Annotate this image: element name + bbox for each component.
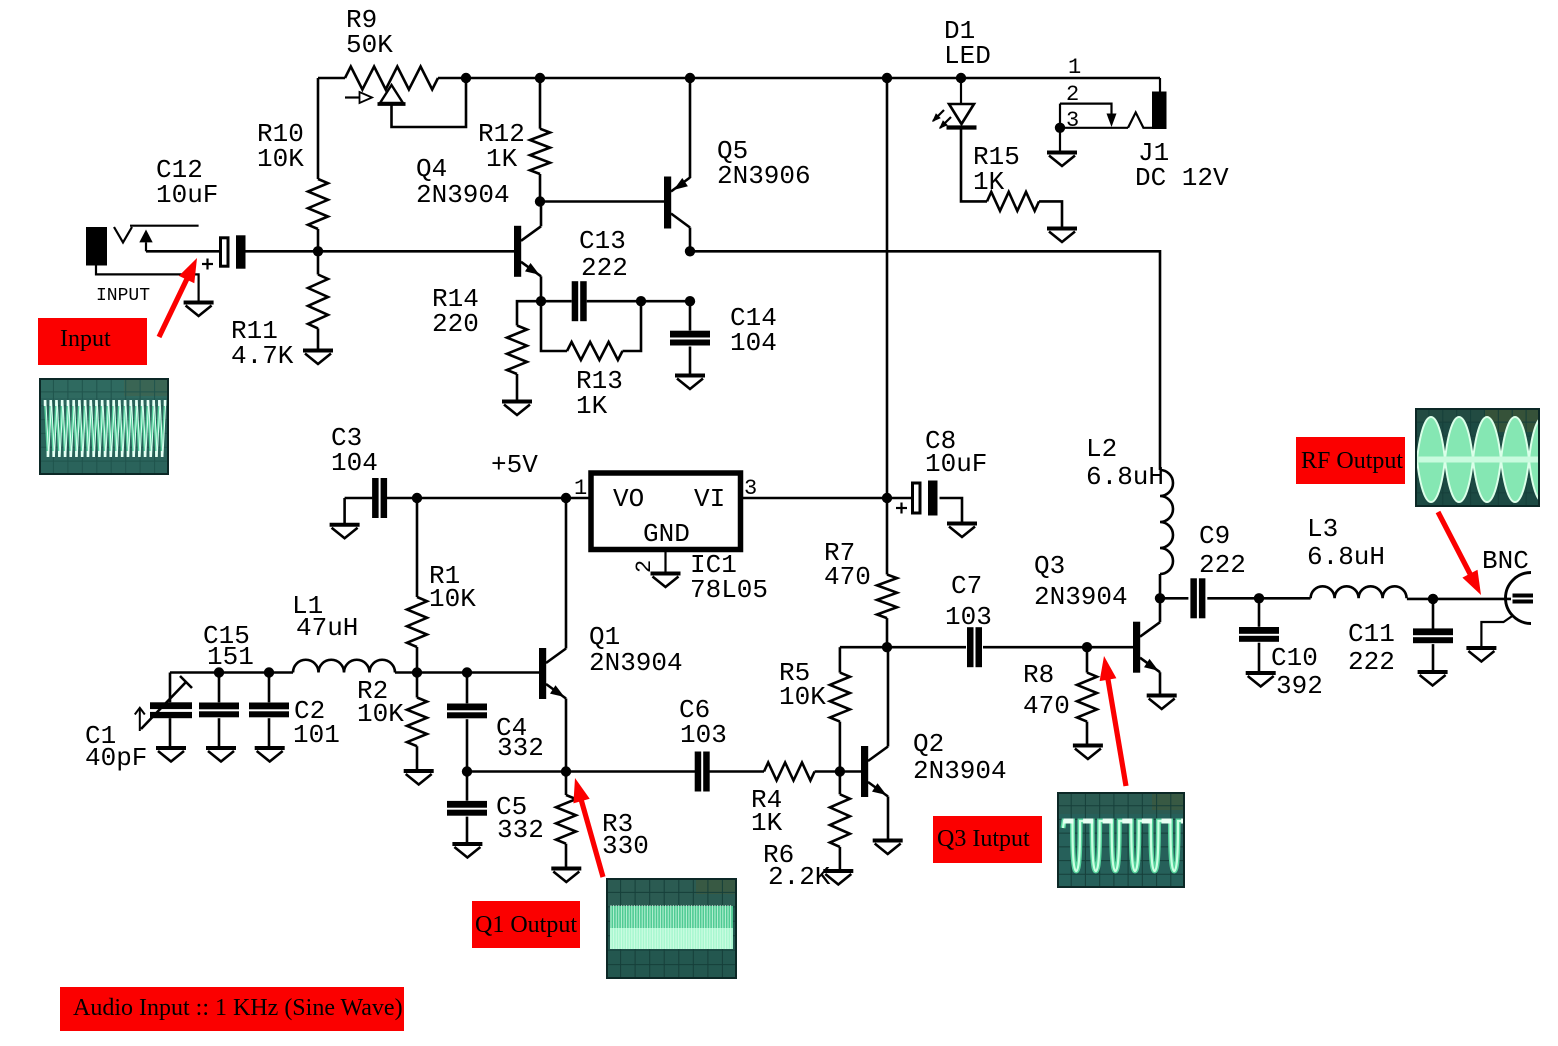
capacitor C8 [913, 483, 921, 513]
svg-text:C11: C11 [1348, 619, 1395, 649]
ground R2 [404, 769, 434, 773]
connector INPUT jack [86, 227, 107, 266]
svg-text:2: 2 [632, 560, 657, 573]
transistor Q3 2N3904 [1133, 622, 1140, 673]
svg-text:332: 332 [497, 815, 544, 845]
resistor R7 [877, 575, 897, 619]
svg-text:Q3: Q3 [1034, 551, 1065, 581]
svg-text:10uF: 10uF [156, 180, 218, 210]
resistor R1 [416, 498, 419, 597]
ground Q3 emitter [1147, 694, 1177, 698]
ground R8 [1073, 744, 1103, 748]
svg-text:GND: GND [643, 519, 690, 549]
capacitor C1 variable [169, 673, 172, 703]
svg-text:10K: 10K [257, 144, 304, 174]
svg-text:1K: 1K [751, 808, 783, 838]
node Q4 emitter [536, 296, 546, 306]
svg-text:3: 3 [1066, 108, 1079, 133]
wire Q3 collector to C9 [1160, 597, 1188, 600]
ground Q2 emitter [873, 839, 903, 843]
transistor Q4 2N3904 [514, 226, 521, 277]
capacitor C2 [268, 673, 271, 703]
ground C14 [675, 374, 705, 378]
node Q1 collector top [561, 493, 571, 503]
wire Q3 collector [1159, 598, 1162, 622]
wire J1 pin 3 with switch [1059, 104, 1061, 128]
svg-text:50K: 50K [346, 30, 393, 60]
node rail-R9wiper [461, 73, 471, 83]
wire C12 to Q4 base [245, 250, 514, 253]
wire C1 to node [170, 671, 293, 674]
svg-text:1K: 1K [973, 167, 1005, 197]
svg-text:104: 104 [331, 448, 378, 478]
capacitor C3 [345, 497, 373, 500]
wire rail to R10 [317, 78, 320, 179]
svg-text:DC 12V: DC 12V [1135, 163, 1229, 193]
wire Q5 collector [689, 228, 692, 252]
resistor R10 [308, 179, 328, 229]
wire R4 to Q2 base [815, 770, 861, 773]
wire Q1 output node row [467, 770, 695, 773]
svg-text:VI: VI [694, 484, 725, 514]
svg-text:C7: C7 [951, 571, 982, 601]
svg-text:2N3906: 2N3906 [717, 161, 811, 191]
ground C11 [1418, 670, 1448, 674]
wire jack sleeve to ground [96, 266, 199, 302]
svg-text:10K: 10K [429, 584, 476, 614]
ground C3 [343, 498, 346, 523]
svg-text:103: 103 [945, 602, 992, 632]
node R8-Q3base [1082, 642, 1092, 652]
scope image Q3 output [1057, 792, 1185, 888]
capacitor C15 [218, 673, 221, 703]
svg-text:+5V: +5V [491, 450, 538, 480]
svg-text:2N3904: 2N3904 [1034, 582, 1128, 612]
callout box RF Output [1296, 437, 1405, 484]
svg-text:R8: R8 [1023, 660, 1054, 690]
svg-text:2.2K: 2.2K [768, 862, 831, 892]
ground C8 [947, 522, 977, 526]
wire BNC shield to ground [1481, 616, 1513, 647]
ground R3 [551, 867, 581, 871]
wire Q5 collector to L2 [690, 251, 1160, 470]
svg-text:BNC: BNC [1482, 546, 1529, 576]
node Q5 collector [685, 246, 695, 256]
svg-text:RF Output: RF Output [1301, 448, 1403, 474]
inductor L1 [293, 660, 395, 673]
capacitor C7 [967, 627, 974, 667]
svg-text:2N3904: 2N3904 [416, 180, 510, 210]
node R5-R6-Q2base [835, 766, 845, 776]
ground C10 [1246, 671, 1276, 675]
wire Q2 emitter to ground [887, 797, 890, 840]
capacitor C12 [221, 238, 229, 266]
wire trunk to R7 [886, 498, 889, 575]
ground input jack [184, 301, 214, 305]
op-amp IC1 78L05 regulator [591, 473, 741, 550]
svg-text:103: 103 [680, 720, 727, 750]
svg-text:Input: Input [60, 326, 111, 352]
LED D1 [960, 78, 962, 104]
ground C15 [206, 746, 236, 750]
scope image Q1 output [606, 878, 737, 979]
callout arrow Q3 Output [1108, 678, 1126, 786]
svg-text:L2: L2 [1086, 434, 1117, 464]
resistor R2 [416, 673, 419, 698]
wire R15 to ground [1039, 201, 1062, 227]
resistor R3 [565, 772, 568, 796]
svg-text:2N3904: 2N3904 [913, 756, 1007, 786]
node C11 top [1428, 594, 1438, 604]
svg-text:Q3 Iutput: Q3 Iutput [937, 826, 1030, 852]
resistor R12 [539, 78, 542, 129]
connector J1 DC jack [1159, 78, 1161, 92]
ground C2 [255, 746, 285, 750]
svg-text:10uF: 10uF [925, 449, 987, 479]
capacitor C13 [572, 281, 579, 321]
svg-text:1K: 1K [486, 144, 518, 174]
node C13-R13 right [636, 296, 646, 306]
svg-text:4.7K: 4.7K [231, 341, 294, 371]
wire R10 to node [317, 229, 320, 251]
wire IC1 GND pin [664, 550, 666, 573]
potentiometer R9 [345, 67, 438, 90]
resistor R11 [317, 251, 320, 274]
wire Q2 collector [887, 647, 890, 746]
svg-text:INPUT: INPUT [96, 286, 150, 306]
wire L2 bottom [1159, 574, 1162, 598]
wire C7 to Q3 base [983, 646, 1133, 649]
node C4-C5 [462, 766, 472, 776]
node C15 top [214, 667, 224, 677]
wire Q4 emitter [540, 276, 543, 301]
capacitor C10 [1258, 598, 1261, 627]
scope image RF output [1415, 408, 1540, 507]
ground R15 [1047, 227, 1077, 231]
resistor R13 loop [541, 301, 567, 351]
callout box Q1 Output [472, 901, 580, 948]
svg-text:6.8uH: 6.8uH [1307, 542, 1385, 572]
node rail-D1 [956, 73, 966, 83]
svg-text:Q2: Q2 [913, 729, 944, 759]
capacitor C4 [466, 673, 469, 704]
svg-text:392: 392 [1276, 671, 1323, 701]
callout box Audio Input [60, 987, 404, 1031]
node input-bias [313, 246, 323, 256]
node C4 top [462, 667, 472, 677]
svg-text:Q1 Output: Q1 Output [475, 912, 577, 938]
svg-text:1: 1 [574, 476, 587, 501]
wire C9 to L3 [1207, 597, 1310, 600]
callout box Input [38, 318, 147, 365]
svg-text:40pF: 40pF [85, 743, 147, 773]
wire jack tip to C12 [146, 250, 219, 253]
svg-text:330: 330 [602, 831, 649, 861]
ground C1 [156, 746, 186, 750]
resistor R6 [839, 772, 842, 795]
svg-text:C9: C9 [1199, 521, 1230, 551]
capacitor C11 [1432, 599, 1435, 629]
inductor L3 [1311, 586, 1407, 598]
svg-text:78L05: 78L05 [690, 575, 768, 605]
wire +12V trunk [886, 78, 889, 498]
node R1-R2-base [412, 667, 422, 677]
svg-text:47uH: 47uH [296, 613, 358, 643]
node rail-R12 [535, 73, 545, 83]
wire IC1 VI to trunk [741, 497, 912, 500]
ground C5 [452, 842, 482, 846]
svg-text:151: 151 [207, 642, 254, 672]
svg-text:104: 104 [730, 328, 777, 358]
wire to R14 [517, 301, 541, 325]
svg-text:2N3904: 2N3904 [589, 648, 683, 678]
ground J1 [1059, 128, 1061, 151]
wire +5V rail [387, 497, 591, 500]
node trunk-VI [882, 493, 892, 503]
wire Q3 emitter to ground [1159, 672, 1162, 694]
node rail-trunk [882, 73, 892, 83]
wire J1 pin 2 [1060, 104, 1112, 114]
node J1 pin3 [1055, 123, 1065, 133]
svg-text:VO: VO [613, 484, 644, 514]
capacitor C6 [695, 752, 702, 792]
resistor R14 [507, 326, 527, 375]
node Q4 collector [535, 196, 545, 206]
ground R14 [502, 400, 532, 404]
wire L1 to Q1 base [395, 671, 539, 674]
wire Q1 emitter [565, 699, 568, 772]
wire Q5 emitter to rail [689, 78, 692, 178]
callout arrow Input [159, 278, 188, 337]
ground IC1 [651, 572, 681, 576]
svg-text:6.8uH: 6.8uH [1086, 462, 1164, 492]
callout box Q3 Iutput [933, 816, 1042, 863]
svg-text:222: 222 [581, 253, 628, 283]
wire R5 column [839, 647, 842, 672]
resistor R5 [830, 673, 850, 722]
svg-text:2: 2 [1066, 82, 1079, 107]
transistor Q2 2N3904 [861, 746, 868, 797]
svg-text:470: 470 [824, 562, 871, 592]
svg-text:220: 220 [432, 309, 479, 339]
callout arrow Q1 Output [581, 799, 603, 877]
svg-text:101: 101 [293, 720, 340, 750]
ground BNC [1466, 646, 1496, 650]
resistor R4 [764, 763, 815, 781]
resistor R15 [987, 192, 1039, 211]
svg-text:1: 1 [1068, 55, 1081, 80]
svg-text:Audio Input :: 1 KHz (Sine Wav: Audio Input :: 1 KHz (Sine Wave) [73, 995, 403, 1021]
wire C13 left [541, 300, 572, 303]
transistor Q5 2N3906 [664, 177, 671, 229]
node C10 top [1254, 593, 1264, 603]
node C2 top [264, 667, 274, 677]
svg-text:C10: C10 [1271, 643, 1318, 673]
svg-text:C13: C13 [579, 226, 626, 256]
wire C8 to ground [940, 498, 963, 522]
wire R9 wiper loop [392, 78, 467, 127]
node C14 top [685, 296, 695, 306]
capacitor C14 [689, 301, 692, 330]
svg-text:10K: 10K [357, 699, 404, 729]
svg-text:L3: L3 [1307, 514, 1338, 544]
svg-text:10K: 10K [779, 682, 826, 712]
svg-text:LED: LED [944, 41, 991, 71]
connector BNC [1506, 573, 1531, 624]
ground R6 [823, 869, 853, 873]
svg-text:222: 222 [1199, 550, 1246, 580]
node Q3 collector [1155, 593, 1165, 603]
inductor L2 [1160, 470, 1173, 574]
callout arrow RF Output [1438, 512, 1471, 576]
wire Q1 collector [565, 498, 568, 649]
wire Q4 collector to Q5 base [540, 200, 664, 203]
wire collector row left [840, 646, 966, 649]
capacitor C9 [1190, 578, 1197, 618]
node rail-Q5 [685, 73, 695, 83]
node R1 top [412, 493, 422, 503]
wire LED to R15 [961, 130, 987, 202]
svg-text:332: 332 [497, 733, 544, 763]
svg-text:470: 470 [1023, 691, 1070, 721]
node Q1 emitter-R3 [561, 766, 571, 776]
capacitor C5 [466, 772, 469, 801]
transistor Q1 2N3904 [539, 648, 546, 699]
wire +12V top rail [318, 77, 345, 80]
resistor R8 [1086, 647, 1089, 672]
wire L3 to BNC [1407, 598, 1511, 601]
wire C13 right [587, 300, 690, 303]
ground R11 [303, 349, 333, 353]
svg-text:1K: 1K [576, 391, 608, 421]
svg-text:222: 222 [1348, 647, 1395, 677]
wire Q4 collector [540, 202, 543, 227]
wire C6 to R4 [709, 770, 764, 773]
node R7-Q2-C7 [882, 642, 892, 652]
